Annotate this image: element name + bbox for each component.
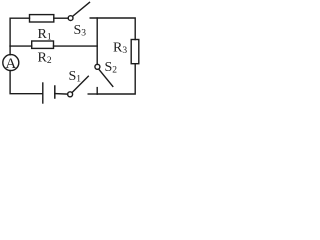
switch S2 lever	[99, 70, 112, 86]
svg-text:R2: R2	[38, 51, 52, 67]
node S2-branch bottom stub	[96, 88, 98, 94]
svg-text:A: A	[5, 56, 16, 72]
svg-text:R1: R1	[38, 27, 52, 43]
resistor R1	[30, 15, 54, 22]
wire bottom rail to S1 right stub	[88, 93, 97, 95]
wire top-left corner to R1	[10, 18, 29, 46]
switch S2 circle	[95, 64, 100, 69]
svg-text:S1: S1	[69, 69, 82, 85]
wire battery to S1	[55, 93, 68, 96]
svg-text:R3: R3	[113, 40, 127, 56]
wire R2 to middle junction	[54, 45, 98, 47]
switch S1 lever	[72, 76, 88, 92]
resistor R2	[32, 41, 54, 48]
battery cell long plate	[42, 83, 44, 103]
wire R2 branch left	[10, 45, 32, 47]
switch S3 circle	[68, 16, 73, 21]
wire R1 to S3	[54, 17, 69, 19]
svg-text:S3: S3	[74, 23, 87, 39]
resistor R3	[131, 40, 139, 64]
wire bottom-left corner to battery	[10, 71, 43, 94]
wire top rail S3 stub to top-right corner	[90, 18, 135, 40]
svg-text:S2: S2	[105, 60, 118, 76]
battery cell short plate	[54, 86, 56, 98]
ammeter A circle	[3, 55, 19, 71]
switch S1 circle	[68, 92, 73, 97]
wire R3 to bottom-right corner	[97, 64, 135, 94]
switch S3 lever	[73, 2, 90, 16]
wire middle vertical branch	[96, 18, 98, 64]
wire ammeter top to R2 branch tap	[9, 46, 11, 55]
